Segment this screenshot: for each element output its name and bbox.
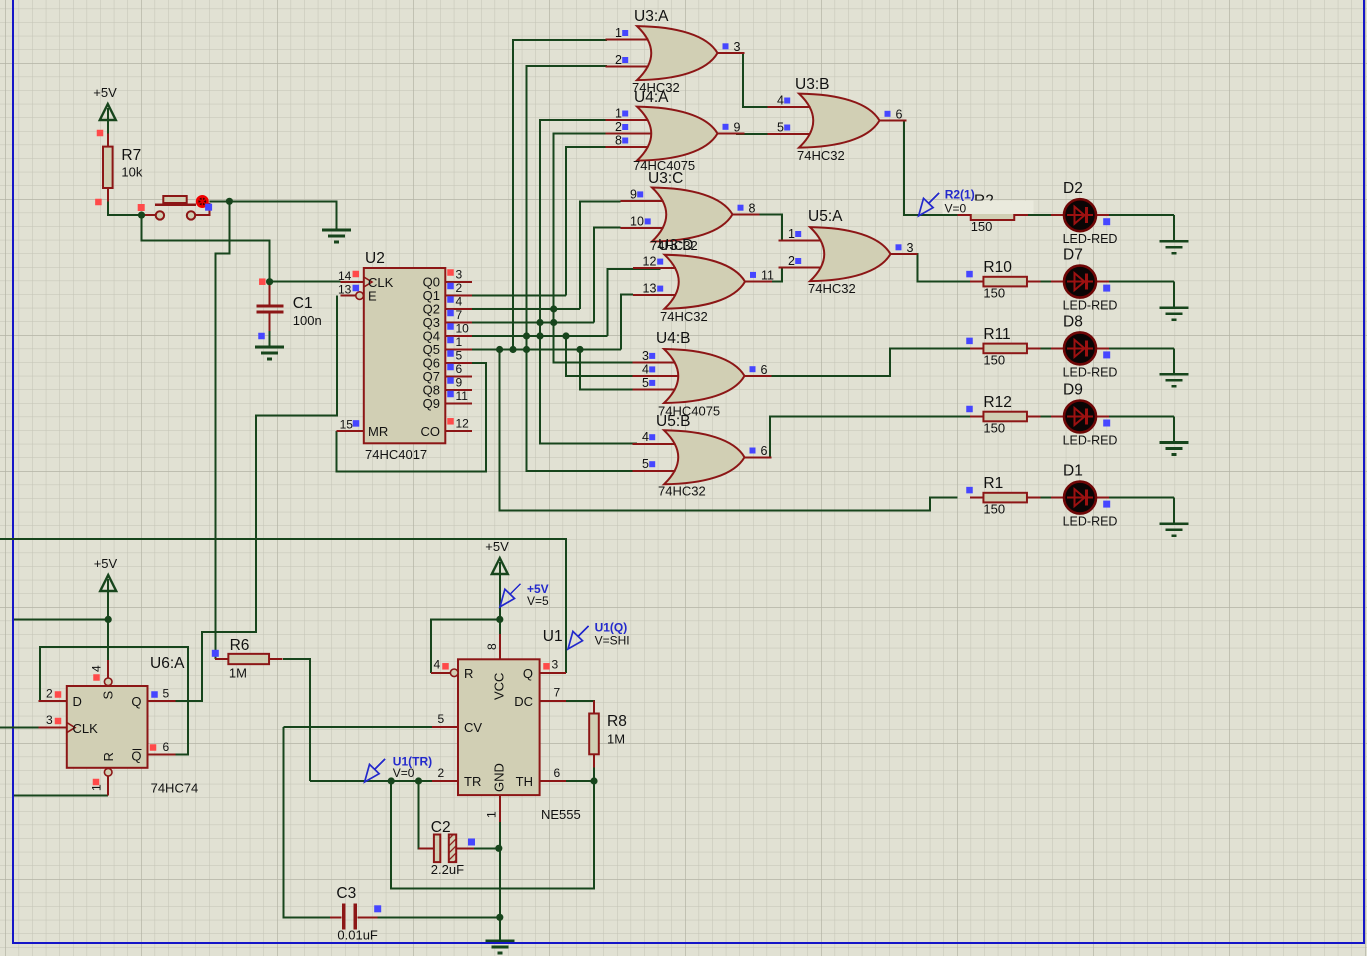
svg-text:6: 6: [163, 740, 170, 754]
svg-text:+5V: +5V: [93, 85, 117, 100]
svg-text:8: 8: [749, 201, 756, 215]
svg-text:100n: 100n: [293, 313, 322, 328]
svg-text:15: 15: [340, 418, 354, 432]
svg-text:150: 150: [983, 502, 1005, 517]
svg-text:6: 6: [761, 363, 768, 377]
svg-text:4: 4: [90, 665, 104, 672]
svg-text:U1(Q): U1(Q): [595, 621, 628, 635]
svg-text:8: 8: [615, 134, 622, 148]
svg-text:Q: Q: [131, 749, 141, 764]
svg-text:14: 14: [338, 269, 352, 283]
svg-text:74HC32: 74HC32: [808, 281, 856, 296]
svg-text:4: 4: [434, 658, 441, 672]
svg-text:1: 1: [485, 811, 499, 818]
svg-text:9: 9: [456, 376, 463, 390]
svg-text:CLK: CLK: [73, 721, 99, 736]
svg-text:1: 1: [456, 335, 463, 349]
svg-text:DC: DC: [514, 694, 533, 709]
svg-text:C2: C2: [431, 819, 451, 836]
svg-text:U4:B: U4:B: [656, 330, 690, 347]
svg-text:8: 8: [485, 643, 499, 650]
svg-text:74HC74: 74HC74: [151, 781, 199, 796]
svg-text:LED-RED: LED-RED: [1063, 515, 1118, 529]
svg-text:3: 3: [907, 241, 914, 255]
svg-text:GND: GND: [492, 763, 507, 792]
svg-text:C3: C3: [336, 885, 356, 902]
svg-text:0.01uF: 0.01uF: [337, 928, 378, 943]
svg-text:R2(1): R2(1): [945, 188, 975, 202]
svg-text:12: 12: [643, 255, 657, 269]
svg-text:13: 13: [643, 282, 657, 296]
svg-text:V=SHI: V=SHI: [595, 634, 630, 648]
svg-text:1M: 1M: [607, 732, 625, 747]
svg-text:E: E: [368, 289, 377, 304]
svg-text:D2: D2: [1063, 180, 1083, 197]
svg-text:5: 5: [642, 457, 649, 471]
svg-text:R1: R1: [983, 475, 1003, 492]
svg-text:D8: D8: [1063, 313, 1083, 330]
svg-text:150: 150: [983, 286, 1005, 301]
svg-text:NE555: NE555: [541, 807, 581, 822]
svg-text:10k: 10k: [121, 165, 142, 180]
svg-text:U3:B: U3:B: [795, 76, 829, 93]
svg-text:+5V: +5V: [94, 556, 118, 571]
svg-text:Q: Q: [131, 694, 141, 709]
svg-text:Q9: Q9: [423, 396, 440, 411]
svg-text:U6:A: U6:A: [150, 655, 185, 672]
svg-text:+5V: +5V: [485, 539, 509, 554]
svg-text:MR: MR: [368, 424, 388, 439]
svg-text:U1: U1: [543, 628, 563, 645]
svg-text:D9: D9: [1063, 382, 1083, 399]
svg-text:LED-RED: LED-RED: [1063, 365, 1118, 379]
svg-text:CO: CO: [421, 424, 441, 439]
svg-text:3: 3: [552, 658, 559, 672]
svg-text:R: R: [101, 752, 116, 761]
svg-text:6: 6: [456, 362, 463, 376]
svg-text:V=0: V=0: [945, 202, 967, 216]
svg-text:V=5: V=5: [527, 594, 549, 608]
svg-text:1M: 1M: [229, 666, 247, 681]
svg-text:7: 7: [554, 686, 561, 700]
svg-text:5: 5: [777, 121, 784, 135]
svg-text:150: 150: [971, 219, 993, 234]
svg-text:U2: U2: [365, 250, 385, 267]
svg-text:74HC32: 74HC32: [660, 309, 708, 324]
svg-text:LED-RED: LED-RED: [1063, 299, 1118, 313]
svg-text:R11: R11: [983, 326, 1010, 343]
svg-text:D7: D7: [1063, 247, 1083, 264]
svg-text:V=0: V=0: [393, 766, 415, 780]
svg-text:5: 5: [438, 712, 445, 726]
svg-text:TR: TR: [464, 774, 481, 789]
svg-text:4: 4: [456, 295, 463, 309]
svg-text:D: D: [73, 694, 82, 709]
svg-text:5: 5: [456, 349, 463, 363]
svg-text:11: 11: [456, 389, 469, 403]
svg-text:74HC4017: 74HC4017: [365, 447, 427, 462]
svg-text:7: 7: [456, 308, 463, 322]
svg-text:2.2uF: 2.2uF: [431, 862, 464, 877]
svg-text:2: 2: [615, 120, 622, 134]
svg-text:S: S: [101, 691, 116, 700]
svg-text:3: 3: [456, 268, 463, 282]
svg-text:CV: CV: [464, 720, 482, 735]
svg-text:150: 150: [983, 421, 1005, 436]
svg-text:U3:D: U3:D: [658, 237, 693, 254]
svg-text:R6: R6: [230, 637, 250, 654]
svg-text:R: R: [464, 666, 473, 681]
svg-text:LED-RED: LED-RED: [1063, 434, 1118, 448]
svg-text:VCC: VCC: [492, 673, 507, 700]
svg-text:2: 2: [615, 53, 622, 67]
svg-text:1: 1: [788, 227, 795, 241]
svg-text:1: 1: [615, 107, 622, 121]
svg-text:U5:A: U5:A: [808, 208, 843, 225]
svg-text:6: 6: [896, 107, 903, 121]
svg-text:R10: R10: [983, 259, 1012, 276]
svg-text:74HC32: 74HC32: [658, 484, 706, 499]
svg-text:C1: C1: [293, 295, 313, 312]
svg-text:U3:C: U3:C: [648, 170, 683, 187]
svg-text:3: 3: [734, 40, 741, 54]
svg-text:2: 2: [456, 281, 463, 295]
svg-text:9: 9: [734, 120, 741, 134]
svg-text:D1: D1: [1063, 463, 1083, 480]
svg-text:6: 6: [554, 766, 561, 780]
svg-text:6: 6: [761, 444, 768, 458]
svg-text:R8: R8: [607, 713, 627, 730]
svg-text:3: 3: [642, 349, 649, 363]
svg-text:1: 1: [615, 26, 622, 40]
svg-text:Q: Q: [523, 666, 533, 681]
svg-text:13: 13: [338, 283, 352, 297]
svg-text:10: 10: [456, 322, 470, 336]
svg-text:4: 4: [777, 94, 784, 108]
svg-text:U3:A: U3:A: [634, 8, 669, 25]
svg-text:4: 4: [642, 362, 649, 376]
svg-text:10: 10: [630, 214, 644, 228]
svg-text:LED-RED: LED-RED: [1063, 232, 1118, 246]
svg-text:5: 5: [642, 376, 649, 390]
svg-text:12: 12: [456, 416, 470, 430]
svg-text:3: 3: [46, 713, 53, 727]
svg-text:U5:B: U5:B: [656, 413, 690, 430]
svg-text:TH: TH: [516, 774, 533, 789]
svg-text:4: 4: [642, 430, 649, 444]
svg-text:U4:A: U4:A: [634, 89, 669, 106]
svg-text:74HC32: 74HC32: [797, 148, 845, 163]
svg-text:2: 2: [46, 687, 53, 701]
svg-text:2: 2: [788, 254, 795, 268]
svg-text:5: 5: [163, 687, 170, 701]
svg-text:R7: R7: [121, 147, 141, 164]
svg-text:R12: R12: [983, 394, 1011, 411]
svg-text:9: 9: [630, 187, 637, 201]
svg-text:2: 2: [438, 766, 445, 780]
svg-text:150: 150: [983, 352, 1005, 367]
svg-text:11: 11: [761, 269, 774, 283]
